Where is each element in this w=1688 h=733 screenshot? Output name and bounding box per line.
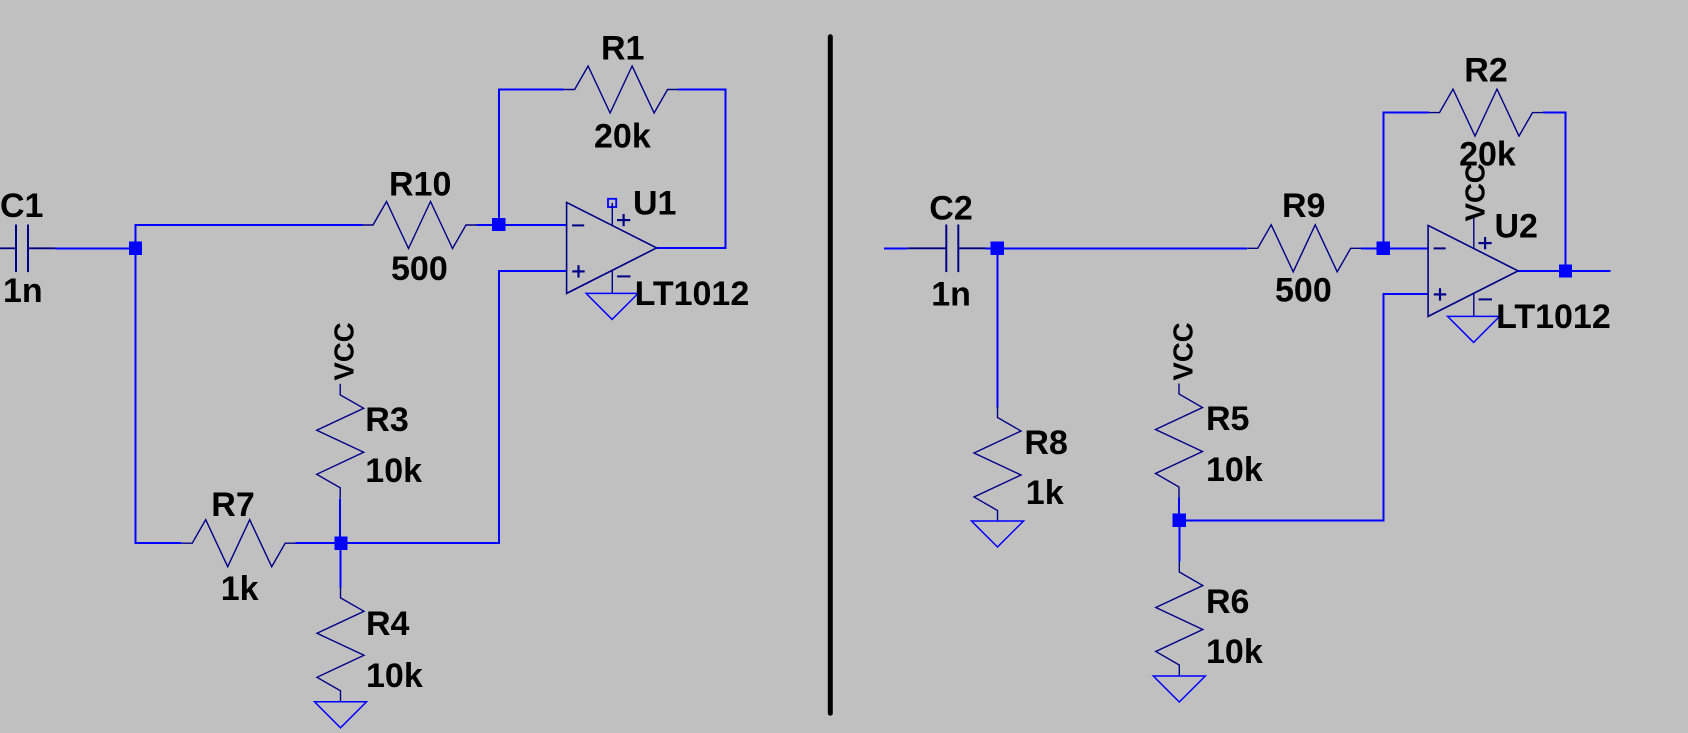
svg-text:LT1012: LT1012 (635, 275, 750, 313)
svg-text:U1: U1 (633, 185, 676, 223)
resistor R1 (564, 66, 678, 113)
junction node G (1173, 514, 1186, 527)
svg-text:LT1012: LT1012 (1496, 298, 1611, 336)
wire R1 right (678, 89, 726, 91)
wire node E up to R2 (1382, 112, 1384, 250)
wire output stub right (1566, 270, 1611, 272)
ground below R8 (972, 521, 1024, 547)
resistor R2 (1429, 89, 1543, 136)
svg-text:VCC: VCC (1167, 322, 1198, 380)
wire node C to non-inverting branch (341, 542, 500, 544)
op-amp U1 inverting input marker (572, 224, 584, 226)
svg-text:R1: R1 (601, 30, 644, 68)
wire node A to R10 (135, 224, 363, 226)
wire to U1 non-inverting input (499, 270, 567, 272)
resistor R5 (1156, 384, 1203, 498)
svg-text:R7: R7 (211, 486, 254, 524)
op-amp U1 V+ pin open square (608, 199, 616, 207)
svg-text:1k: 1k (221, 570, 259, 608)
wire node A up (135, 224, 137, 248)
resistor R6 (1156, 562, 1203, 676)
wire VCC stub to R3 (339, 384, 341, 385)
svg-text:C2: C2 (929, 189, 972, 227)
resistor R4 (317, 587, 364, 701)
svg-text:C1: C1 (0, 187, 43, 225)
junction node C (334, 537, 347, 550)
wire feedback down to output node (1564, 112, 1566, 272)
divider line between circuits (828, 37, 833, 713)
svg-text:1k: 1k (1026, 474, 1064, 512)
svg-text:1n: 1n (3, 272, 43, 310)
wire R5 to node G (1178, 498, 1180, 521)
svg-text:R10: R10 (389, 165, 451, 203)
svg-text:R2: R2 (1464, 52, 1507, 90)
ground below R4 (315, 702, 367, 728)
svg-text:R3: R3 (365, 401, 408, 439)
ground at op-amp U2 V- pin (1448, 316, 1500, 342)
wire input to C2 (884, 247, 908, 249)
svg-text:R5: R5 (1206, 400, 1249, 438)
wire non-inverting down (1383, 293, 1385, 522)
svg-text:U2: U2 (1495, 208, 1538, 246)
wire to U2 non-inverting input (1384, 293, 1428, 295)
ground below R6 (1153, 676, 1205, 702)
resistor R7 (182, 520, 296, 567)
svg-text:R6: R6 (1206, 583, 1249, 621)
capacitor C2 (908, 225, 986, 273)
junction node A (129, 242, 142, 255)
op-amp U2 V+ plus marker (1479, 237, 1492, 249)
svg-text:10k: 10k (365, 452, 422, 490)
op-amp U2 V+ pin lead (1473, 215, 1475, 248)
svg-text:10k: 10k (1206, 633, 1263, 671)
junction output node F (1559, 265, 1572, 278)
resistor R10 (363, 202, 477, 249)
resistor R3 (317, 384, 364, 498)
svg-text:10k: 10k (366, 657, 423, 695)
svg-text:500: 500 (391, 250, 448, 288)
op-amp U1 V- pin lead (611, 270, 613, 293)
wire node C to R4 (340, 543, 342, 587)
op-amp U2 non-inverting input marker (1434, 288, 1446, 300)
op-amp U2 inverting input marker (1434, 247, 1446, 249)
op-amp U2 body (1428, 225, 1518, 316)
wire U2 output (1518, 270, 1565, 272)
svg-text:500: 500 (1275, 271, 1332, 309)
svg-text:R8: R8 (1024, 424, 1067, 462)
wire R3 to node C (339, 498, 341, 543)
svg-text:VCC: VCC (1459, 163, 1490, 221)
resistor R9 (1247, 225, 1361, 272)
junction node D (991, 242, 1004, 255)
op-amp U1 body (567, 202, 657, 293)
wire node D down to R8 (996, 248, 998, 407)
junction node E at U2 inverting input (1377, 242, 1390, 255)
svg-text:1n: 1n (931, 275, 971, 313)
svg-text:R9: R9 (1282, 187, 1325, 225)
op-amp U1 V- minus marker (617, 275, 630, 277)
wire C2 to node D (986, 247, 998, 249)
op-amp U2 V- pin lead (1473, 293, 1475, 316)
resistor R8 (974, 407, 1021, 521)
wire C1 to node A (55, 247, 129, 249)
junction node B at U1 inverting input (492, 218, 505, 231)
op-amp U1 V+ plus marker (617, 214, 630, 226)
op-amp U1 V+ pin lead (611, 203, 613, 226)
wire node G to R6 (1178, 521, 1180, 562)
op-amp U2 V- minus marker (1479, 298, 1492, 300)
wire node A down (135, 248, 137, 544)
svg-text:20k: 20k (594, 118, 651, 156)
wire R7 to node C (296, 542, 341, 544)
op-amp U1 non-inverting input marker (572, 265, 584, 277)
wire to R7 (135, 542, 182, 544)
svg-text:10k: 10k (1206, 451, 1263, 489)
wire to R2 left (1382, 112, 1429, 114)
wire feedback down to U1 output (724, 89, 726, 249)
wire R9 to U2 inverting input (1361, 247, 1428, 249)
wire U1 output (657, 247, 727, 249)
wire R2 right (1543, 112, 1566, 114)
wire node B up to R1 (498, 89, 500, 226)
capacitor C1 (0, 225, 55, 273)
wire node G to non-inverting branch (1180, 520, 1385, 522)
wire R10 to U1 inverting input (477, 224, 567, 226)
wire to R1 left (498, 89, 564, 91)
wire node D to R9 (997, 247, 1247, 249)
ground at op-amp U1 V- pin (586, 293, 638, 319)
wire non-inverting down (498, 270, 500, 544)
svg-text:VCC: VCC (329, 322, 360, 380)
svg-text:R4: R4 (366, 605, 410, 643)
